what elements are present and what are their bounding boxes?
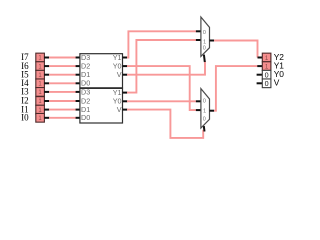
svg-text:1: 1 — [265, 55, 269, 62]
U1 output stub Y1 — [123, 57, 128, 59]
input pin I4 (value 1) — [21, 78, 49, 88]
wire U2.V to MUX2 select — [127, 110, 203, 138]
svg-text:0: 0 — [265, 79, 269, 88]
MUX1 input 0 stub — [196, 30, 201, 32]
encoder input stub (U2 D0) — [76, 117, 80, 119]
svg-text:1: 1 — [203, 39, 206, 45]
priority encoder U1 (inputs D3-D0, outputs Y1,Y0,V) — [80, 53, 123, 88]
wire I3 to encoder input — [49, 91, 76, 93]
svg-text:V: V — [274, 78, 280, 88]
encoder input stub (U2 D2) — [76, 100, 80, 102]
output pin Y1 (value 1) — [262, 61, 284, 71]
svg-text:D3: D3 — [81, 87, 90, 96]
U1 output stub V — [123, 74, 128, 76]
pin Y0 stub (unconnected) — [257, 74, 263, 76]
input pin I6 (value 1) — [21, 61, 49, 71]
output pin Y0 (value 0) — [262, 69, 284, 79]
U2 output stub V — [123, 109, 128, 111]
multiplexer MUX1 (2-to-1) — [201, 17, 210, 56]
priority encoder U2 (inputs D3-D0, outputs Y1,Y0,V) — [80, 87, 123, 123]
pin Y1 stub — [257, 65, 262, 67]
U2 output stub Y0 — [123, 100, 128, 102]
MUX1 select stub — [203, 55, 206, 62]
multiplexer MUX2 (2-to-1) — [201, 89, 210, 128]
U2 output stub Y1 — [123, 92, 128, 94]
svg-text:0: 0 — [203, 98, 206, 104]
MUX1 output stub — [210, 40, 215, 42]
input pin I5 (value 1) — [21, 69, 49, 79]
svg-text:1: 1 — [203, 108, 206, 114]
pin V stub (unconnected) — [257, 82, 263, 84]
svg-text:I0: I0 — [21, 113, 29, 123]
input pin I3 (value 1) — [21, 87, 49, 97]
encoder input stub (U2 D1) — [76, 109, 80, 111]
output pin V (value 0) — [262, 78, 279, 88]
input pin I1 (value 1) — [21, 104, 49, 114]
wire MUX1 output to pin Y2 — [214, 41, 258, 58]
svg-text:0: 0 — [203, 30, 206, 36]
wire U2.Y1 to MUX1 input 1 — [127, 40, 196, 93]
wire I0 to encoder input — [49, 117, 76, 119]
pin Y2 stub — [258, 57, 263, 59]
U1 output stub Y0 — [123, 65, 128, 67]
wire I7 to encoder input — [49, 57, 76, 59]
input pin I0 (value 1) — [21, 113, 49, 123]
wire I2 to encoder input — [49, 100, 76, 102]
wire U1.V to MUX1 select — [127, 61, 205, 75]
wire I6 to encoder input — [49, 65, 76, 67]
svg-text:V: V — [117, 105, 122, 114]
svg-text:0: 0 — [203, 116, 206, 122]
MUX2 output stub — [210, 110, 215, 112]
MUX1 input 1 stub — [196, 39, 201, 41]
encoder input stub (U1 D3) — [76, 57, 80, 59]
wire MUX2 output to pin Y1 — [214, 66, 258, 111]
svg-text:Y1: Y1 — [113, 88, 122, 97]
svg-text:V: V — [117, 70, 122, 79]
input pin I2 (value 1) — [21, 96, 49, 106]
MUX2 select stub — [203, 126, 206, 132]
svg-text:0: 0 — [203, 46, 206, 52]
wire I4 to encoder input — [49, 82, 76, 84]
MUX2 input 1 stub — [196, 109, 201, 111]
input pin I7 (value 1) — [21, 52, 49, 62]
wire U2.Y0 to MUX2 input 0 — [127, 100, 196, 102]
wire U1.Y1 to MUX1 input 0 — [127, 31, 196, 57]
wire I5 to encoder input — [49, 74, 76, 76]
encoder input stub (U1 D0) — [76, 82, 80, 84]
wire I1 to encoder input — [49, 109, 76, 111]
svg-text:D0: D0 — [81, 113, 90, 122]
wire U1.Y0 to MUX2 input 1 — [127, 66, 196, 110]
encoder input stub (U2 D3) — [76, 91, 80, 93]
encoder input stub (U1 D2) — [76, 65, 80, 67]
output pin Y2 (value 1) — [262, 52, 284, 62]
MUX2 input 0 stub — [196, 100, 201, 102]
encoder input stub (U1 D1) — [76, 74, 80, 76]
